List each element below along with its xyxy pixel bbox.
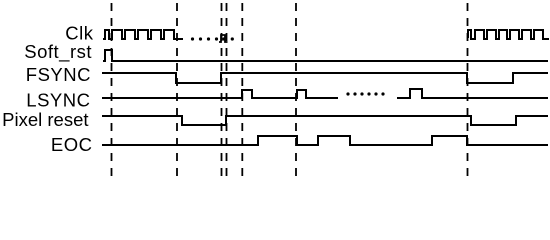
wire Clk right burst [468, 30, 549, 39]
svg-text:LSYNC: LSYNC [26, 89, 90, 110]
wire LSYNC left [102, 90, 338, 98]
wire Pixel reset [102, 116, 548, 125]
svg-text:Pixel reset: Pixel reset [2, 109, 88, 130]
wire Clk mini pulse between dashed pair [219, 35, 228, 42]
wire Soft_rst [103, 50, 548, 61]
wire FSYNC [102, 73, 548, 83]
grid dashed vertical line x=467.5 [467, 3, 469, 176]
grid dashed vertical line x=177 [176, 3, 178, 176]
wire EOC [102, 136, 548, 145]
grid dashed vertical line x=296 [295, 3, 297, 176]
wire Clk left burst [103, 30, 183, 39]
svg-text:FSYNC: FSYNC [26, 64, 91, 85]
LSYNC ellipsis dots [346, 92, 349, 95]
Clk ellipsis dots [191, 37, 194, 40]
svg-text:EOC: EOC [51, 134, 93, 155]
grid dashed vertical line x=242.3 [241, 3, 243, 176]
grid dashed vertical line x=111.5 [111, 3, 113, 176]
grid dashed vertical line x=226.5 [226, 3, 228, 176]
grid dashed vertical line x=221.5 [221, 3, 223, 176]
wire LSYNC right [397, 89, 548, 98]
svg-text:Soft_rst: Soft_rst [24, 41, 92, 63]
